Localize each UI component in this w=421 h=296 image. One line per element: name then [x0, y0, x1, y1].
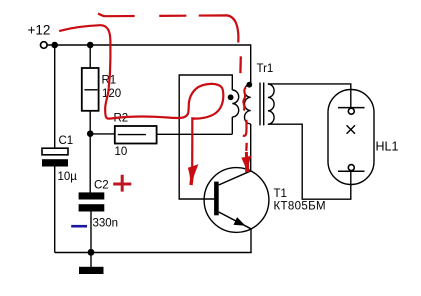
transformer Tr1 primary winding [244, 84, 250, 124]
wire secondary top [268, 84, 351, 108]
svg-text:T1: T1 [274, 188, 287, 200]
transistor T1 emitter lead [219, 212, 251, 229]
junction left branch [51, 42, 58, 49]
svg-text:C2: C2 [94, 180, 109, 192]
svg-text:HL1: HL1 [376, 140, 399, 154]
transformer Tr1 secondary winding [268, 84, 274, 124]
wire bottom rail [55, 252, 252, 254]
junction R2 node [87, 130, 94, 137]
annotation red arrow to transistor base [188, 164, 199, 185]
svg-text:C1: C1 [59, 135, 74, 147]
annotation red plus at C2 [113, 175, 131, 192]
transformer Tr1 feedback winding [232, 90, 238, 117]
lamp HL1 cross [347, 125, 355, 134]
power terminal +12 [41, 42, 48, 49]
wire R1 top [89, 45, 91, 68]
wire collector [250, 124, 252, 171]
svg-text:+12: +12 [28, 23, 51, 38]
resistor R1 [82, 68, 99, 111]
wire C2 top [89, 134, 91, 193]
wire feedback loop [179, 75, 232, 199]
wire emitter down [250, 229, 252, 253]
wire R2 left [90, 133, 115, 135]
svg-text:120: 120 [102, 88, 121, 100]
transistor T1 base bar [214, 182, 219, 216]
phase dot feedback [228, 94, 234, 100]
annotation red dash at transformer 1 [239, 56, 242, 73]
junction R1 branch [87, 42, 94, 49]
wire R1 bottom [89, 111, 91, 134]
junction ground node [88, 249, 95, 256]
wire C2 bottom [90, 212, 92, 253]
annotation red dashed top line [98, 14, 238, 43]
wire R2 right [157, 133, 233, 135]
resistor R2 [115, 126, 157, 144]
lamp HL1 envelope [328, 90, 374, 185]
annotation red dash at transformer 3 [245, 143, 248, 151]
annotation red loop stroke [60, 25, 223, 166]
wire secondary bottom [268, 124, 351, 199]
annotation red dash at transformer 2 [243, 120, 247, 136]
lamp HL1 top electrode [338, 108, 365, 115]
transistor T1 circle [204, 168, 269, 233]
transistor T1 collector lead [219, 171, 251, 185]
lamp HL1 bottom electrode [338, 165, 365, 172]
annotation red squiggle at windings [243, 87, 245, 110]
annotation red arrow to transistor collector [241, 152, 251, 173]
emitter arrow [234, 217, 246, 226]
annotation blue minus at C2 [71, 225, 87, 228]
svg-text:КТ805БМ: КТ805БМ [274, 201, 327, 213]
svg-text:10: 10 [115, 146, 128, 158]
ground [79, 253, 104, 275]
wire left branch upper [54, 45, 56, 149]
capacitor C1 [42, 148, 68, 166]
phase dot primary [246, 82, 252, 88]
wire left branch lower [54, 167, 56, 253]
transformer core [260, 83, 264, 126]
svg-text:10µ: 10µ [58, 171, 78, 183]
svg-text:330n: 330n [93, 217, 119, 229]
svg-text:Tr1: Tr1 [257, 63, 274, 75]
wire top rail [47, 45, 251, 84]
capacitor C2 [79, 192, 105, 211]
